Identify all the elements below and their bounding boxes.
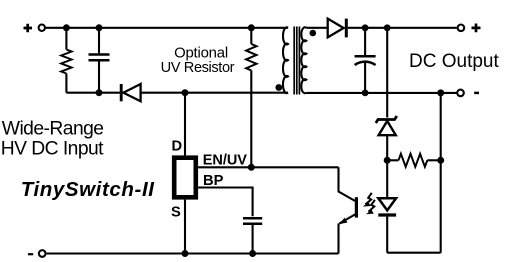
wire drain — [184, 93, 186, 156]
node source on bottom rail — [182, 250, 189, 257]
node BP cap bottom — [249, 250, 256, 257]
svg-text:HV DC Input: HV DC Input — [1, 138, 104, 159]
opto light arrow 2 — [366, 200, 375, 214]
node input resistor top — [63, 24, 70, 31]
capacitor BP — [243, 218, 262, 253]
label Optional UV Resistor — [161, 46, 235, 76]
wire BP pin — [198, 188, 253, 217]
svg-text:UV Resistor: UV Resistor — [161, 60, 235, 76]
wire EN/UV line — [198, 166, 338, 168]
svg-text:EN/UV: EN/UV — [203, 153, 247, 169]
svg-text:TinySwitch-II: TinySwitch-II — [21, 178, 156, 201]
node input cap top — [96, 24, 103, 31]
transformer T1 primary winding — [283, 27, 288, 93]
node secondary polarity dot — [310, 30, 317, 37]
wire feedback bottom loop — [387, 252, 441, 254]
diode zener VR1 — [376, 116, 397, 160]
node output cap top — [362, 24, 369, 31]
transformer T1 secondary winding — [301, 27, 306, 93]
svg-text:Wide-Range: Wide-Range — [2, 118, 104, 139]
node output cap bottom — [362, 90, 369, 97]
capacitor output polarized — [355, 28, 376, 93]
svg-text:S: S — [171, 204, 181, 220]
input + terminal — [24, 24, 46, 33]
wire top rail — [46, 27, 288, 29]
svg-text:D: D — [172, 139, 183, 155]
transistor opto phototransistor — [339, 197, 357, 253]
node feedback tap — [437, 89, 444, 96]
diode output rectifier — [328, 19, 347, 38]
node zener branch top — [384, 24, 391, 31]
resistor UV optional — [246, 28, 256, 168]
wire opto collector — [339, 167, 356, 201]
node zener anode junction — [384, 157, 391, 164]
svg-text:DC Output: DC Output — [409, 51, 499, 72]
output - terminal — [457, 90, 479, 97]
opto light arrow 1 — [363, 193, 372, 207]
resistor feedback bias — [387, 154, 441, 167]
wire output bottom rail — [306, 92, 456, 94]
node resistor right junction — [437, 157, 444, 164]
input - terminal — [28, 250, 46, 257]
wire output top — [348, 27, 457, 29]
capacitor input — [89, 28, 110, 93]
wire zener branch from + rail — [386, 28, 388, 118]
output + terminal — [458, 24, 481, 33]
node EN/UV junction — [248, 164, 255, 171]
wire feedback right vertical — [440, 93, 442, 253]
resistor input RC — [61, 28, 71, 93]
transformer core — [294, 27, 299, 95]
node UV resistor top — [248, 24, 255, 31]
label Wide-Range HV DC Input — [1, 118, 104, 159]
wire source pin — [184, 200, 186, 254]
op IC U1 TinySwitch block — [174, 158, 196, 198]
diode input (pointing left) — [121, 84, 140, 101]
node primary polarity dot — [275, 84, 282, 91]
svg-text:BP: BP — [203, 173, 224, 189]
LED of optocoupler U2 — [378, 160, 396, 252]
wire lower primary — [66, 92, 288, 94]
node input cap bottom — [96, 89, 103, 96]
node drain junction — [182, 89, 189, 96]
wire secondary top — [306, 27, 327, 29]
wire bottom rail — [47, 252, 339, 254]
